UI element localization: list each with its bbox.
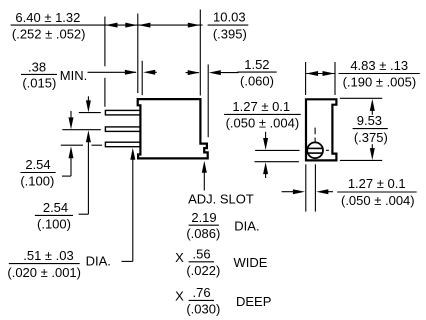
svg-text:(.015): (.015) bbox=[22, 76, 56, 91]
fraction bar 1.52 bbox=[237, 71, 276, 73]
fraction bar 1.27 bottom bbox=[337, 191, 417, 193]
arrow right at V3 bbox=[188, 70, 200, 75]
pin 2 bbox=[105, 127, 141, 131]
width ext line VB bbox=[334, 62, 336, 95]
svg-text:X: X bbox=[175, 288, 184, 303]
svg-text:6.40 ± 1.32: 6.40 ± 1.32 bbox=[15, 10, 80, 25]
adjustment screw circle bbox=[307, 142, 323, 158]
svg-text:ADJ. SLOT: ADJ. SLOT bbox=[188, 191, 254, 206]
arrow up at ext2 with leader to 2.54 lower text bbox=[86, 130, 91, 142]
offset ext line B bbox=[314, 164, 316, 211]
height ext line top bbox=[340, 97, 382, 99]
fraction bar .76 bbox=[189, 299, 214, 301]
dim .38 leader bbox=[88, 71, 137, 73]
fraction bar 2.19 bbox=[189, 224, 219, 226]
fraction bar .56 bbox=[189, 261, 214, 263]
dim 1.27 bottom leader left bbox=[282, 191, 294, 193]
svg-text:(.086): (.086) bbox=[186, 226, 220, 241]
svg-text:(.252 ± .052): (.252 ± .052) bbox=[12, 27, 86, 42]
arrow right at body face bbox=[125, 70, 137, 75]
svg-text:.76: .76 bbox=[193, 285, 211, 300]
svg-text:2.19: 2.19 bbox=[191, 210, 216, 225]
svg-text:1.27 ± 0.1: 1.27 ± 0.1 bbox=[348, 176, 406, 191]
trimmer body front view bbox=[306, 99, 336, 160]
fraction bar 10.03 bbox=[208, 24, 249, 26]
dim 1.52 leader bbox=[186, 72, 199, 74]
svg-text:(.060): (.060) bbox=[240, 73, 274, 88]
svg-text:.51 ± .03: .51 ± .03 bbox=[23, 248, 74, 263]
svg-text:(.100): (.100) bbox=[20, 174, 54, 189]
arrow right at V2 bbox=[125, 23, 137, 28]
svg-text:(.030): (.030) bbox=[186, 301, 220, 316]
fraction bar .51 bbox=[9, 263, 80, 265]
adj slot arrow bbox=[203, 172, 205, 190]
dim 6.40 line with leader bbox=[11, 24, 138, 26]
svg-text:.38: .38 bbox=[28, 59, 46, 74]
arrow down 9.53 bbox=[371, 144, 373, 149]
dim 10.03 line bbox=[138, 24, 203, 26]
arrow up 9.53 bbox=[371, 110, 373, 115]
arrow right at V3 bbox=[188, 23, 200, 28]
trimmer body side view bbox=[138, 99, 208, 158]
fraction bar 2.54 lower bbox=[35, 214, 73, 216]
arrow up at ext3 with leader to 2.54 upper text bbox=[69, 146, 74, 158]
svg-text:WIDE: WIDE bbox=[234, 255, 268, 270]
svg-text:4.83 ± .13: 4.83 ± .13 bbox=[350, 58, 408, 73]
svg-text:9.53: 9.53 bbox=[357, 113, 382, 128]
svg-text:(.100): (.100) bbox=[37, 216, 71, 231]
extension line V3 (body right face) bbox=[199, 10, 201, 96]
fraction bar 2.54 upper bbox=[20, 172, 55, 174]
svg-text:(.050 ± .004): (.050 ± .004) bbox=[341, 193, 415, 208]
svg-text:MIN.: MIN. bbox=[60, 68, 87, 83]
arrow down at ext1 bbox=[87, 96, 89, 101]
arrow left at V1 bbox=[106, 23, 118, 28]
arrow down at upper bbox=[265, 132, 267, 140]
arrow left at slot face bbox=[209, 70, 221, 75]
width ext line VA bbox=[305, 62, 307, 95]
pin pitch ext line 2 bbox=[62, 129, 101, 131]
dim 4.83 line bbox=[306, 73, 334, 75]
screw height ext line lower bbox=[255, 161, 299, 163]
screw centerline dashes bbox=[314, 128, 316, 135]
svg-text:(.020 ± .001): (.020 ± .001) bbox=[7, 265, 81, 280]
height ext line bottom bbox=[340, 159, 382, 161]
extension line V2 (body left face) bbox=[137, 14, 139, 94]
fraction bar 9.53 bbox=[353, 128, 388, 130]
pin pitch ext line 3 bbox=[61, 144, 83, 146]
svg-text:1.52: 1.52 bbox=[244, 57, 269, 72]
svg-text:DIA.: DIA. bbox=[234, 219, 259, 234]
extension line standoff face bbox=[141, 61, 143, 95]
fraction bar 4.83 bbox=[339, 73, 420, 75]
svg-text:.56: .56 bbox=[193, 246, 211, 261]
extension line V1 (pin tip) bbox=[104, 17, 106, 67]
dia leader elbow bbox=[122, 260, 133, 262]
arrow down at ext2 bbox=[70, 111, 72, 119]
svg-text:(.022): (.022) bbox=[186, 263, 220, 278]
svg-text:DEEP: DEEP bbox=[236, 294, 271, 309]
svg-text:(.395): (.395) bbox=[213, 27, 247, 42]
svg-text:1.27 ± 0.1: 1.27 ± 0.1 bbox=[232, 99, 290, 114]
dim 1.27 bottom leader right bbox=[316, 189, 328, 194]
arrow up at pin3 bbox=[130, 148, 135, 160]
pin pitch ext line 1 bbox=[79, 112, 101, 114]
svg-text:(.190 ± .005): (.190 ± .005) bbox=[343, 75, 417, 90]
svg-text:(.050 ± .004): (.050 ± .004) bbox=[226, 116, 300, 131]
svg-text:X: X bbox=[175, 250, 184, 265]
pin 3 bbox=[105, 142, 141, 147]
fraction bar 1.27 left bbox=[224, 113, 301, 115]
extension line slot face bbox=[207, 64, 209, 137]
svg-text:2.54: 2.54 bbox=[25, 157, 50, 172]
fraction bar .38 bbox=[21, 73, 57, 75]
screw slot lines bbox=[308, 147, 323, 149]
svg-text:10.03: 10.03 bbox=[213, 10, 246, 25]
screw height ext line upper bbox=[255, 149, 299, 151]
svg-text:DIA.: DIA. bbox=[86, 253, 111, 268]
svg-text:(.375): (.375) bbox=[354, 130, 388, 145]
offset ext line A bbox=[305, 164, 307, 211]
svg-text:2.54: 2.54 bbox=[43, 200, 68, 215]
pin 1 bbox=[105, 110, 141, 115]
arrow left at standoff face bbox=[143, 70, 155, 75]
arrow up at lower bbox=[263, 162, 268, 174]
